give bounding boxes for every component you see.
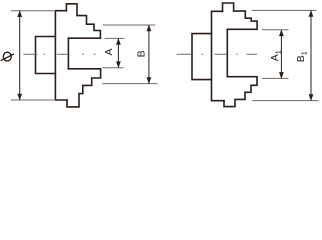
dimension thin lines (right figure) bbox=[252, 10, 319, 100]
arrowheads (left figure) bbox=[17, 10, 151, 100]
arrow B bottom bbox=[147, 77, 152, 84]
phi symbol bbox=[1, 52, 14, 61]
dimension line A bbox=[117, 38, 119, 67]
extension line top for A1 bbox=[262, 29, 289, 31]
bottom jaw stepped profile (right figure) bbox=[224, 77, 257, 107]
centerline (right figure) bbox=[177, 53, 257, 55]
arrowheads (right figure) bbox=[279, 10, 313, 101]
arrow B top bbox=[147, 25, 152, 32]
extension line top for phi bbox=[11, 10, 54, 12]
body front face between jaws (right figure) bbox=[226, 29, 228, 76]
back plate (right figure) bbox=[192, 34, 212, 80]
arrow A1 top bbox=[279, 30, 284, 37]
dimension thin lines (left figure) bbox=[11, 11, 158, 100]
bottom jaw stepped profile (left figure) bbox=[67, 69, 101, 107]
back plate (left figure) bbox=[36, 37, 56, 74]
dimension line B1 bbox=[310, 10, 312, 100]
dimension line B bbox=[148, 25, 150, 84]
extension line bottom for B bbox=[102, 83, 157, 85]
arrow A bottom bbox=[116, 61, 121, 68]
extension line top for B bbox=[103, 24, 155, 26]
extension line top for B1 bbox=[252, 9, 317, 11]
svg-text:A: A bbox=[103, 48, 115, 55]
arrow B1 top bbox=[309, 10, 314, 17]
centerline (left figure) bbox=[23, 53, 95, 55]
top jaw stepped profile (right figure) bbox=[223, 3, 258, 29]
dimension lines dark (right figure) bbox=[281, 10, 311, 100]
extension line bottom for A bbox=[102, 67, 123, 69]
arrow phi top bbox=[17, 10, 22, 17]
svg-text:B: B bbox=[135, 50, 147, 57]
dimension line phi bbox=[19, 11, 21, 100]
chuck body (left figure) bbox=[55, 11, 67, 100]
dimension lines dark (left figure) bbox=[20, 11, 149, 100]
arrow phi bottom bbox=[17, 94, 22, 101]
arrow A top bbox=[116, 38, 121, 45]
extension line bottom for B1 bbox=[252, 100, 319, 102]
top jaw stepped profile (left figure) bbox=[66, 4, 100, 38]
arrow A1 bottom bbox=[279, 72, 284, 79]
extension line bottom for phi bbox=[11, 99, 54, 101]
dimension line A1 bbox=[280, 30, 282, 79]
extension line top for A bbox=[105, 37, 125, 39]
body front face between jaws (left figure) bbox=[67, 38, 69, 69]
arrow B1 bottom bbox=[309, 94, 314, 101]
extension line bottom for A1 bbox=[262, 77, 289, 79]
chuck body (right figure) bbox=[212, 11, 225, 100]
